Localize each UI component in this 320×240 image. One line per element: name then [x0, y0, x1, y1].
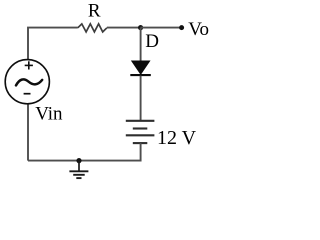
- plus sign: [25, 64, 33, 66]
- resistor R: [78, 24, 107, 32]
- node junction dot at top of diode branch: [138, 25, 143, 30]
- wire: bottom-left up to source bottom: [27, 104, 29, 161]
- svg-text:12 V: 12 V: [157, 127, 197, 149]
- ground: [69, 161, 88, 179]
- wire: junction to Vo terminal: [141, 27, 182, 29]
- voltage source Vin (AC source): [5, 60, 49, 104]
- svg-text:D: D: [145, 31, 159, 52]
- svg-text:R: R: [88, 0, 101, 21]
- node Vo terminal dot: [179, 25, 184, 30]
- minus sign: [24, 93, 31, 95]
- battery 12V: [126, 121, 155, 143]
- svg-text:Vo: Vo: [188, 19, 209, 40]
- wire: diode cathode to battery top: [140, 76, 142, 121]
- svg-text:Vin: Vin: [35, 104, 63, 125]
- node ground junction dot: [76, 158, 81, 163]
- sine wave: [16, 79, 42, 85]
- wire: battery bottom down and left along bottom: [28, 143, 141, 161]
- wire: resistor to junction: [107, 27, 141, 29]
- wire: junction down to diode anode: [140, 28, 142, 62]
- wire top-left: source top to resistor: [28, 28, 78, 60]
- diode D: [130, 61, 151, 75]
